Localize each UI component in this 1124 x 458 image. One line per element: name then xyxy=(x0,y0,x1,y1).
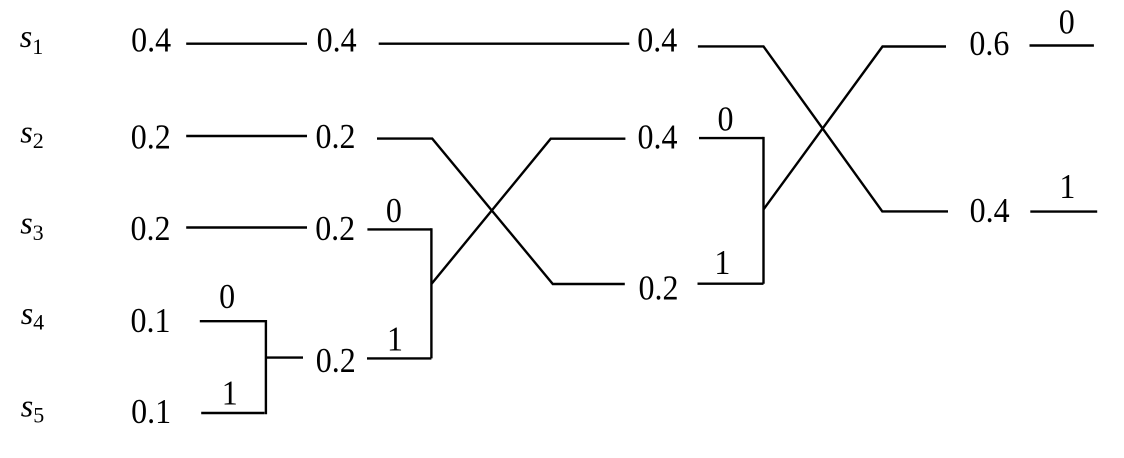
svg-text:s5: s5 xyxy=(21,387,44,427)
svg-text:1: 1 xyxy=(1059,168,1075,207)
svg-text:0: 0 xyxy=(219,278,235,317)
svg-text:0: 0 xyxy=(718,100,734,139)
svg-text:0.6: 0.6 xyxy=(969,25,1009,64)
svg-text:0.2: 0.2 xyxy=(639,269,679,308)
svg-text:s3: s3 xyxy=(20,204,43,245)
svg-text:0.4: 0.4 xyxy=(131,21,171,60)
svg-text:1: 1 xyxy=(222,374,238,413)
svg-text:0.2: 0.2 xyxy=(315,210,355,249)
svg-text:1: 1 xyxy=(714,244,730,283)
svg-text:0: 0 xyxy=(386,192,402,231)
svg-text:0.2: 0.2 xyxy=(316,118,356,157)
svg-text:0.1: 0.1 xyxy=(131,302,171,341)
svg-text:0: 0 xyxy=(1059,3,1075,42)
svg-text:0.4: 0.4 xyxy=(637,21,677,60)
svg-text:1: 1 xyxy=(387,320,403,359)
svg-text:0.1: 0.1 xyxy=(131,393,171,432)
svg-text:0.4: 0.4 xyxy=(970,192,1010,231)
svg-text:s2: s2 xyxy=(20,113,43,153)
svg-text:s4: s4 xyxy=(21,295,44,335)
svg-text:0.2: 0.2 xyxy=(131,210,171,249)
svg-text:0.4: 0.4 xyxy=(638,118,678,157)
svg-text:s1: s1 xyxy=(20,18,43,59)
svg-text:0.2: 0.2 xyxy=(131,118,171,157)
svg-text:0.4: 0.4 xyxy=(317,21,357,60)
svg-text:0.2: 0.2 xyxy=(316,342,356,381)
